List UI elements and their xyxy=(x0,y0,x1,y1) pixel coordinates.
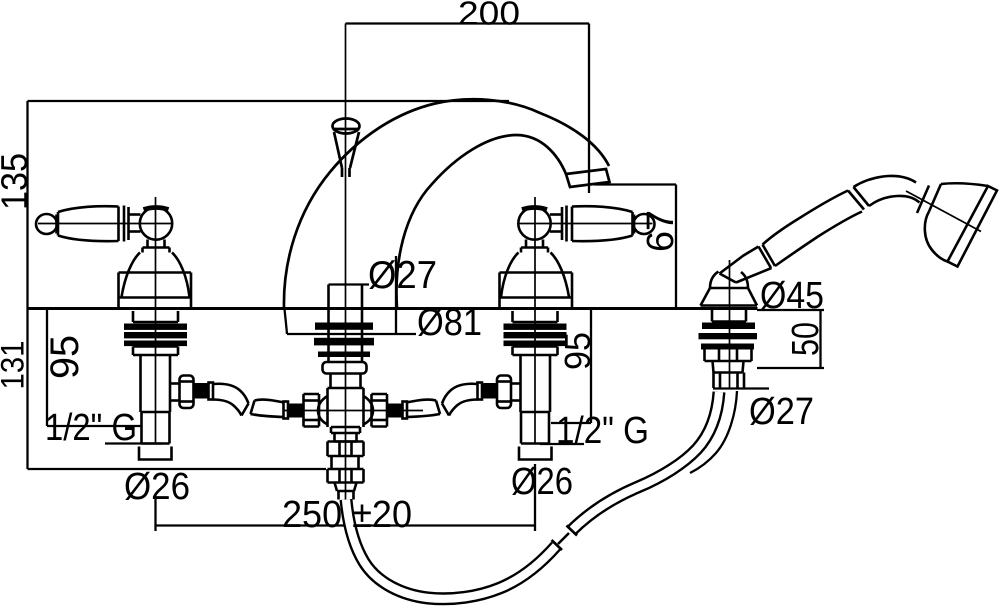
svg-text:Ø81: Ø81 xyxy=(417,302,482,344)
svg-text:250 ±20: 250 ±20 xyxy=(282,494,412,536)
svg-text:67: 67 xyxy=(640,210,682,252)
svg-text:1/2" G: 1/2" G xyxy=(556,410,649,452)
svg-text:50: 50 xyxy=(785,322,827,356)
svg-text:95: 95 xyxy=(43,335,87,379)
svg-text:135: 135 xyxy=(0,153,35,210)
svg-text:200: 200 xyxy=(458,0,520,32)
svg-text:Ø45: Ø45 xyxy=(760,275,824,317)
svg-text:Ø27: Ø27 xyxy=(749,391,814,433)
svg-text:1/2" G: 1/2" G xyxy=(45,407,137,449)
svg-text:95: 95 xyxy=(557,332,598,370)
svg-text:131: 131 xyxy=(0,341,31,390)
svg-text:Ø26: Ø26 xyxy=(511,461,573,503)
svg-text:Ø27: Ø27 xyxy=(368,254,437,297)
svg-text:Ø26: Ø26 xyxy=(124,466,190,508)
